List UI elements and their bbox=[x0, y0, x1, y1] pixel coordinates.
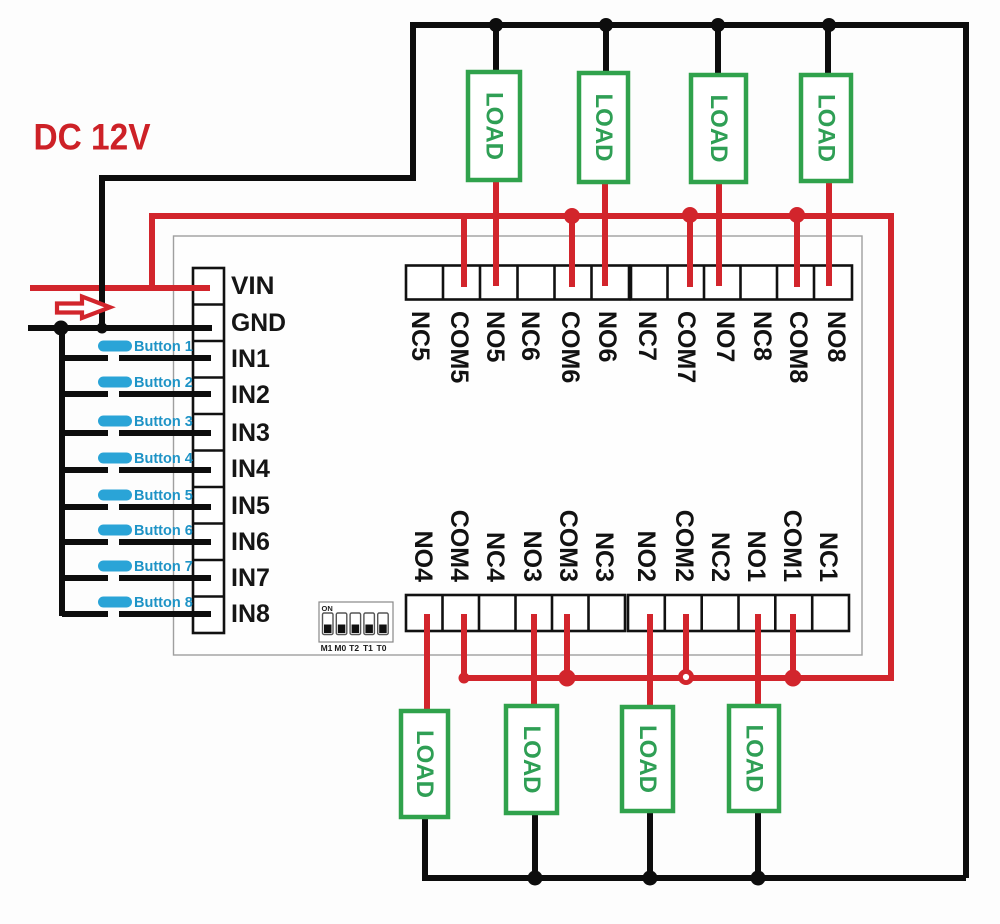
svg-text:LOAD: LOAD bbox=[813, 94, 840, 162]
wire: NO6 stub from LOAD2 bbox=[602, 179, 608, 286]
svg-text:T1: T1 bbox=[363, 643, 373, 653]
junction dot bottom red bus / COM2 (ring) bbox=[678, 669, 694, 685]
wire: bottom red bus bbox=[464, 675, 891, 681]
svg-text:NO1: NO1 bbox=[742, 531, 770, 583]
svg-text:NC6: NC6 bbox=[516, 311, 544, 361]
svg-text:NO4: NO4 bbox=[409, 531, 437, 583]
svg-text:NC3: NC3 bbox=[590, 532, 618, 582]
wire: +12V feed into VIN terminal bbox=[30, 285, 210, 291]
svg-text:M0: M0 bbox=[334, 643, 346, 653]
wire: COM3 stub bbox=[564, 614, 570, 678]
wire: NO1 stub to LOAD8 bbox=[755, 614, 761, 708]
svg-text:T2: T2 bbox=[349, 643, 359, 653]
wire: VIN riser to top red bus bbox=[149, 213, 155, 288]
svg-text:Button 6: Button 6 bbox=[134, 523, 193, 539]
junction dot top bus / LOAD2 bbox=[599, 18, 613, 32]
svg-text:COM2: COM2 bbox=[670, 510, 698, 582]
svg-text:COM7: COM7 bbox=[672, 311, 700, 383]
junction dot red bus / COM6 bbox=[564, 208, 580, 224]
wire: LOAD6 bottom stub bbox=[532, 810, 538, 878]
wire: top red bus bbox=[149, 213, 891, 219]
junction dot bottom bus / LOAD6 bbox=[528, 871, 543, 886]
svg-text:Button 8: Button 8 bbox=[134, 595, 193, 611]
pushbutton SW4 bbox=[62, 451, 211, 470]
svg-text:ON: ON bbox=[322, 604, 333, 613]
svg-text:IN3: IN3 bbox=[231, 419, 270, 447]
wire: riser overlay at VIN crossing bbox=[99, 279, 105, 297]
wire: LOAD4 top stub bbox=[825, 25, 831, 78]
svg-text:VIN: VIN bbox=[231, 272, 275, 300]
wire: COM2 stub bbox=[683, 614, 689, 678]
current direction arrow bbox=[57, 297, 110, 319]
junction dot GND / button bus bbox=[54, 321, 69, 336]
svg-text:NC7: NC7 bbox=[633, 311, 661, 361]
svg-text:COM4: COM4 bbox=[445, 510, 473, 582]
junction dot red bus / COM8 bbox=[789, 207, 805, 223]
svg-text:Button 1: Button 1 bbox=[134, 339, 193, 355]
svg-text:NO3: NO3 bbox=[518, 531, 546, 582]
wire: right-side GND drop bbox=[963, 22, 969, 878]
wire: left button bus bbox=[59, 325, 65, 616]
svg-text:NO7: NO7 bbox=[711, 311, 739, 362]
wire: COM8 stub bbox=[794, 216, 800, 287]
svg-text:IN7: IN7 bbox=[231, 564, 270, 592]
relay module board outline bbox=[174, 236, 863, 655]
svg-text:NO8: NO8 bbox=[822, 311, 850, 363]
DIP switch S1 bbox=[319, 602, 393, 653]
svg-text:Button 3: Button 3 bbox=[134, 414, 193, 430]
svg-text:IN1: IN1 bbox=[231, 345, 270, 373]
svg-text:IN5: IN5 bbox=[231, 492, 270, 520]
svg-text:Button 5: Button 5 bbox=[134, 488, 193, 504]
pushbutton SW8 bbox=[62, 595, 211, 614]
load LOAD4 (top) bbox=[801, 75, 851, 181]
svg-text:IN4: IN4 bbox=[231, 455, 270, 483]
svg-text:Button 2: Button 2 bbox=[134, 375, 193, 391]
top relay terminal strip NC5..NO8 bbox=[406, 266, 852, 300]
wire: vertical riser from GND node up bbox=[99, 178, 105, 328]
load LOAD1 (top) bbox=[468, 72, 520, 180]
load LOAD7 (bottom) bbox=[622, 707, 673, 811]
junction dot top bus / LOAD3 bbox=[711, 18, 725, 32]
wire: top GND bus bbox=[410, 22, 966, 28]
junction dot bottom bus / LOAD7 bbox=[643, 871, 658, 886]
wire: LOAD7 bottom stub bbox=[647, 808, 653, 878]
svg-text:COM3: COM3 bbox=[554, 510, 582, 582]
svg-text:NC4: NC4 bbox=[481, 532, 509, 582]
svg-text:COM6: COM6 bbox=[556, 311, 584, 383]
left terminal strip (VIN/GND/IN1-IN8) bbox=[193, 268, 224, 633]
wire: NO3 stub to LOAD6 bbox=[531, 614, 537, 708]
pushbutton SW6 bbox=[62, 523, 211, 542]
svg-text:LOAD: LOAD bbox=[518, 726, 545, 794]
wire: LOAD1 top stub bbox=[493, 25, 499, 75]
svg-text:Button 4: Button 4 bbox=[134, 451, 193, 467]
junction dot GND / riser bbox=[97, 323, 108, 334]
svg-text:COM8: COM8 bbox=[784, 311, 812, 383]
junction dot red bus / COM7 bbox=[682, 207, 698, 223]
svg-text:GND: GND bbox=[231, 309, 286, 337]
svg-text:LOAD: LOAD bbox=[705, 95, 732, 163]
pushbutton SW5 bbox=[62, 488, 211, 507]
svg-text:LOAD: LOAD bbox=[741, 725, 768, 793]
svg-text:IN8: IN8 bbox=[231, 600, 270, 628]
wire: LOAD8 bottom stub bbox=[755, 808, 761, 878]
svg-text:COM5: COM5 bbox=[445, 311, 473, 383]
wire: COM7 stub bbox=[687, 216, 693, 287]
wire: upper horizontal run bbox=[99, 175, 413, 181]
junction dot top bus / LOAD4 bbox=[822, 18, 836, 32]
wire: riser to top bus bbox=[410, 25, 416, 181]
svg-text:NC2: NC2 bbox=[706, 532, 734, 582]
junction dot bottom red bus / COM1 bbox=[785, 670, 802, 687]
pushbutton SW7 bbox=[62, 559, 211, 578]
svg-text:LOAD: LOAD bbox=[411, 730, 438, 798]
wire: NO2 stub to LOAD7 bbox=[647, 614, 653, 710]
junction dot bottom red bus / COM4 corner bbox=[459, 673, 470, 684]
svg-text:NC5: NC5 bbox=[406, 311, 434, 361]
wire: right-side red drop bbox=[888, 213, 894, 681]
wire: NO5 stub from LOAD1 bbox=[493, 177, 499, 286]
load LOAD3 (top) bbox=[691, 75, 746, 182]
wire: COM5 stub bbox=[461, 216, 467, 287]
svg-text:LOAD: LOAD bbox=[634, 725, 661, 793]
wire: LOAD2 top stub bbox=[603, 25, 609, 76]
wire: NO7 stub from LOAD3 bbox=[716, 179, 722, 286]
svg-text:Button 7: Button 7 bbox=[134, 559, 193, 575]
wire: COM6 stub bbox=[569, 216, 575, 287]
svg-text:NC8: NC8 bbox=[748, 311, 776, 361]
svg-text:T0: T0 bbox=[377, 643, 387, 653]
svg-text:LOAD: LOAD bbox=[590, 94, 617, 162]
junction dot top bus / LOAD1 bbox=[489, 18, 503, 32]
load LOAD5 (bottom) bbox=[401, 711, 448, 817]
pushbutton SW3 bbox=[62, 414, 211, 433]
wire: COM4 stub to bottom red bus bbox=[461, 614, 467, 681]
load LOAD6 (bottom) bbox=[506, 706, 557, 813]
wire: NO4 stub to LOAD5 bbox=[424, 614, 430, 713]
svg-text:DC 12V: DC 12V bbox=[34, 116, 151, 158]
svg-text:LOAD: LOAD bbox=[481, 92, 508, 160]
wire: bottom GND bus bbox=[425, 875, 966, 881]
wire: LOAD5 bottom stub bbox=[422, 814, 428, 881]
svg-text:NO6: NO6 bbox=[593, 311, 621, 362]
bottom relay terminal strip NO4..NC1 bbox=[406, 595, 849, 631]
wire: COM1 stub bbox=[790, 614, 796, 678]
junction dot bottom bus / LOAD8 bbox=[751, 871, 766, 886]
load LOAD8 (bottom) bbox=[729, 706, 779, 811]
svg-text:IN6: IN6 bbox=[231, 528, 270, 556]
svg-text:M1: M1 bbox=[321, 643, 333, 653]
pushbutton SW1 bbox=[62, 339, 211, 358]
svg-text:NO2: NO2 bbox=[632, 531, 660, 582]
svg-text:NO5: NO5 bbox=[481, 311, 509, 363]
pushbutton SW2 bbox=[62, 375, 211, 394]
wire: NO8 stub from LOAD4 bbox=[826, 178, 832, 286]
svg-text:COM1: COM1 bbox=[778, 510, 806, 582]
wire: LOAD3 top stub bbox=[715, 25, 721, 78]
load LOAD2 (top) bbox=[579, 73, 628, 182]
junction dot bottom red bus / COM3 bbox=[559, 670, 576, 687]
svg-text:IN2: IN2 bbox=[231, 381, 270, 409]
svg-text:NC1: NC1 bbox=[814, 532, 842, 582]
wire: GND feed horizontal into GND terminal bbox=[28, 325, 212, 331]
